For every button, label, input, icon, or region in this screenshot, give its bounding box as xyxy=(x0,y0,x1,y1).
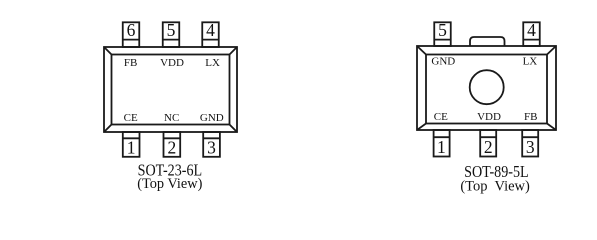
svg-text:3: 3 xyxy=(207,137,216,157)
svg-text:LX: LX xyxy=(205,57,220,69)
svg-text:FB: FB xyxy=(124,57,137,69)
svg-text:GND: GND xyxy=(200,112,224,124)
svg-text:1: 1 xyxy=(127,137,136,157)
svg-text:(Top View): (Top View) xyxy=(137,176,202,192)
svg-text:2: 2 xyxy=(168,137,177,157)
svg-text:GND: GND xyxy=(431,55,455,67)
svg-text:CE: CE xyxy=(124,112,138,124)
svg-text:5: 5 xyxy=(438,20,447,40)
svg-text:CE: CE xyxy=(434,111,448,123)
svg-text:FB: FB xyxy=(524,111,537,123)
svg-text:4: 4 xyxy=(206,20,215,40)
svg-text:5: 5 xyxy=(167,20,176,40)
svg-text:LX: LX xyxy=(523,55,538,67)
svg-text:VDD: VDD xyxy=(477,111,501,123)
svg-text:3: 3 xyxy=(526,137,535,157)
svg-text:2: 2 xyxy=(484,137,493,157)
svg-text:4: 4 xyxy=(527,20,536,40)
svg-text:(Top View): (Top View) xyxy=(460,179,530,195)
svg-text:6: 6 xyxy=(127,20,136,40)
svg-text:VDD: VDD xyxy=(160,57,184,69)
svg-text:1: 1 xyxy=(437,137,446,157)
svg-text:NC: NC xyxy=(164,112,179,124)
